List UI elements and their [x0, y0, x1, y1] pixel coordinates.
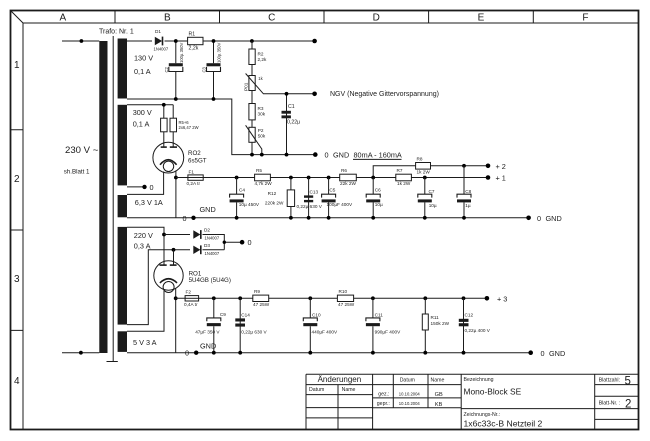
- svg-text:C9: C9: [220, 312, 226, 317]
- svg-text:NGV (Negative Gittervorspannun: NGV (Negative Gittervorspannung): [330, 91, 439, 98]
- svg-text:0,3 A: 0,3 A: [134, 242, 151, 251]
- svg-text:R8: R8: [417, 157, 423, 162]
- svg-text:P01: P01: [244, 82, 249, 91]
- svg-text:Datum: Datum: [309, 387, 324, 393]
- svg-text:A: A: [59, 13, 66, 24]
- svg-text:Änderungen: Änderungen: [318, 375, 362, 384]
- svg-text:KB: KB: [435, 402, 443, 408]
- svg-text:2: 2: [14, 174, 20, 185]
- svg-text:C4: C4: [239, 188, 245, 193]
- svg-text:5: 5: [625, 376, 631, 388]
- svg-text:1µ: 1µ: [465, 203, 471, 208]
- svg-text:RO2: RO2: [188, 150, 201, 157]
- svg-text:GND: GND: [549, 349, 565, 358]
- svg-text:6,3 V 1A: 6,3 V 1A: [135, 198, 163, 207]
- svg-text:Name: Name: [431, 377, 445, 383]
- svg-text:F1: F1: [189, 169, 195, 174]
- svg-text:Datum: Datum: [400, 377, 415, 383]
- svg-text:0,22µ 630 V: 0,22µ 630 V: [297, 204, 323, 209]
- svg-text:B: B: [164, 13, 171, 24]
- svg-text:100µF 400V: 100µF 400V: [327, 202, 354, 207]
- svg-text:440µF 400V: 440µF 400V: [312, 330, 339, 335]
- svg-text:F: F: [582, 13, 588, 24]
- svg-text:Mono-Block SE: Mono-Block SE: [464, 387, 522, 397]
- svg-text:R11: R11: [431, 315, 440, 320]
- svg-text:0: 0: [185, 349, 189, 358]
- svg-text:47 25W: 47 25W: [253, 302, 270, 307]
- svg-text:0: 0: [150, 183, 154, 192]
- svg-text:R3: R3: [258, 106, 264, 111]
- svg-text:0,2A tr: 0,2A tr: [187, 181, 201, 186]
- svg-text:D: D: [373, 13, 380, 24]
- svg-text:GND: GND: [200, 342, 216, 351]
- svg-text:C12: C12: [465, 313, 474, 318]
- svg-text:Bezeichnung: Bezeichnung: [464, 377, 494, 383]
- svg-text:2: 2: [625, 399, 631, 411]
- svg-text:990µF 400V: 990µF 400V: [375, 330, 402, 335]
- svg-text:130 V: 130 V: [134, 54, 153, 63]
- svg-text:GND: GND: [333, 151, 349, 160]
- svg-text:0,1 A: 0,1 A: [134, 67, 151, 76]
- svg-text:100µ 350V: 100µ 350V: [179, 42, 184, 63]
- svg-text:4,7k 2W: 4,7k 2W: [255, 181, 273, 186]
- svg-text:C7: C7: [429, 189, 435, 194]
- svg-text:0: 0: [541, 349, 545, 358]
- svg-text:2x6,47 2W: 2x6,47 2W: [179, 125, 199, 130]
- svg-text:3: 3: [14, 274, 20, 285]
- svg-text:220 V: 220 V: [134, 231, 153, 240]
- svg-text:C10: C10: [312, 312, 321, 317]
- svg-text:R9: R9: [254, 289, 260, 294]
- svg-text:220k 2W: 220k 2W: [265, 201, 284, 206]
- svg-text:0: 0: [537, 214, 541, 223]
- svg-text:R2: R2: [258, 52, 264, 57]
- svg-text:2,2k: 2,2k: [258, 57, 268, 62]
- svg-text:C3: C3: [202, 66, 207, 72]
- svg-text:5 V 3 A: 5 V 3 A: [133, 338, 157, 347]
- svg-text:1k 2W: 1k 2W: [417, 170, 431, 175]
- svg-text:10.10.2004: 10.10.2004: [399, 391, 421, 396]
- svg-text:1N4007: 1N4007: [205, 236, 220, 241]
- svg-text:C13: C13: [310, 190, 319, 195]
- svg-text:C1: C1: [288, 104, 295, 110]
- svg-text:Blatt-Nr. :: Blatt-Nr. :: [599, 400, 621, 406]
- svg-text:R12: R12: [268, 191, 277, 196]
- svg-text:0,4A tr: 0,4A tr: [184, 302, 198, 307]
- svg-text:GB: GB: [435, 392, 443, 398]
- svg-text:+ 3: + 3: [497, 295, 507, 304]
- svg-text:D3: D3: [204, 243, 210, 248]
- svg-text:6s5GT: 6s5GT: [188, 158, 207, 165]
- svg-text:R5: R5: [256, 168, 262, 173]
- svg-text:R7: R7: [397, 168, 403, 173]
- svg-text:D1: D1: [155, 29, 161, 34]
- svg-text:10µ: 10µ: [429, 203, 437, 208]
- svg-text:10µ 450V: 10µ 450V: [239, 202, 260, 207]
- svg-text:1N4007: 1N4007: [154, 47, 169, 52]
- svg-text:+ 2: + 2: [496, 162, 506, 171]
- svg-text:0,1 A: 0,1 A: [133, 120, 150, 129]
- svg-text:47µF 350 V: 47µF 350 V: [195, 330, 220, 335]
- svg-text:C: C: [268, 13, 275, 24]
- svg-text:0: 0: [325, 151, 329, 160]
- svg-text:150k 2W: 150k 2W: [431, 321, 450, 326]
- svg-text:sh.Blatt 1: sh.Blatt 1: [64, 169, 90, 176]
- svg-text:0: 0: [182, 214, 186, 223]
- svg-text:C11: C11: [375, 312, 384, 317]
- svg-text:Name: Name: [342, 387, 356, 393]
- svg-text:0,22µ 400 V: 0,22µ 400 V: [465, 328, 491, 333]
- svg-text:230 V ~: 230 V ~: [65, 145, 99, 156]
- svg-text:1N4007: 1N4007: [205, 251, 220, 256]
- svg-text:gez.:: gez.:: [378, 391, 389, 397]
- svg-text:gepr.:: gepr.:: [377, 401, 390, 407]
- svg-text:10µ: 10µ: [375, 202, 383, 207]
- svg-text:5U4GB (5U4G): 5U4GB (5U4G): [189, 277, 231, 284]
- svg-text:GND: GND: [546, 214, 562, 223]
- svg-text:0,22µ: 0,22µ: [287, 120, 300, 126]
- svg-text:0,22µ 630 V: 0,22µ 630 V: [241, 330, 267, 335]
- svg-text:Trafo: Nr. 1: Trafo: Nr. 1: [99, 29, 134, 36]
- svg-text:100µ 350V: 100µ 350V: [217, 42, 222, 63]
- svg-text:2,2k: 2,2k: [189, 46, 199, 52]
- svg-text:C8: C8: [465, 189, 471, 194]
- svg-text:C6: C6: [375, 188, 381, 193]
- svg-text:C2: C2: [164, 66, 169, 72]
- svg-text:300 V: 300 V: [133, 108, 152, 117]
- svg-text:80mA - 160mA: 80mA - 160mA: [354, 151, 402, 160]
- svg-text:1k 2W: 1k 2W: [397, 181, 411, 186]
- svg-text:4: 4: [14, 376, 20, 387]
- svg-text:50k: 50k: [258, 134, 266, 139]
- svg-text:0: 0: [248, 238, 252, 247]
- svg-text:30k: 30k: [258, 112, 266, 117]
- svg-text:10.10.2004: 10.10.2004: [399, 401, 421, 406]
- svg-text:R10: R10: [339, 289, 348, 294]
- svg-text:D2: D2: [204, 228, 210, 233]
- svg-text:C14: C14: [241, 312, 250, 317]
- svg-text:Blattzahl:: Blattzahl:: [599, 377, 620, 383]
- svg-text:GND: GND: [200, 205, 216, 214]
- svg-text:C5: C5: [329, 188, 335, 193]
- svg-text:1x6c33c-B Netzteil 2: 1x6c33c-B Netzteil 2: [464, 419, 543, 429]
- svg-text:47 25W: 47 25W: [338, 302, 355, 307]
- svg-text:+ 1: + 1: [496, 174, 506, 183]
- svg-text:P2: P2: [258, 128, 264, 133]
- svg-text:R1: R1: [189, 32, 196, 38]
- svg-text:F2: F2: [186, 290, 192, 295]
- svg-text:R6: R6: [341, 168, 347, 173]
- svg-text:Zeichnungs-Nr.:: Zeichnungs-Nr.:: [464, 412, 501, 418]
- svg-text:E: E: [478, 13, 485, 24]
- svg-text:22k 2W: 22k 2W: [340, 181, 356, 186]
- svg-text:1: 1: [14, 60, 20, 71]
